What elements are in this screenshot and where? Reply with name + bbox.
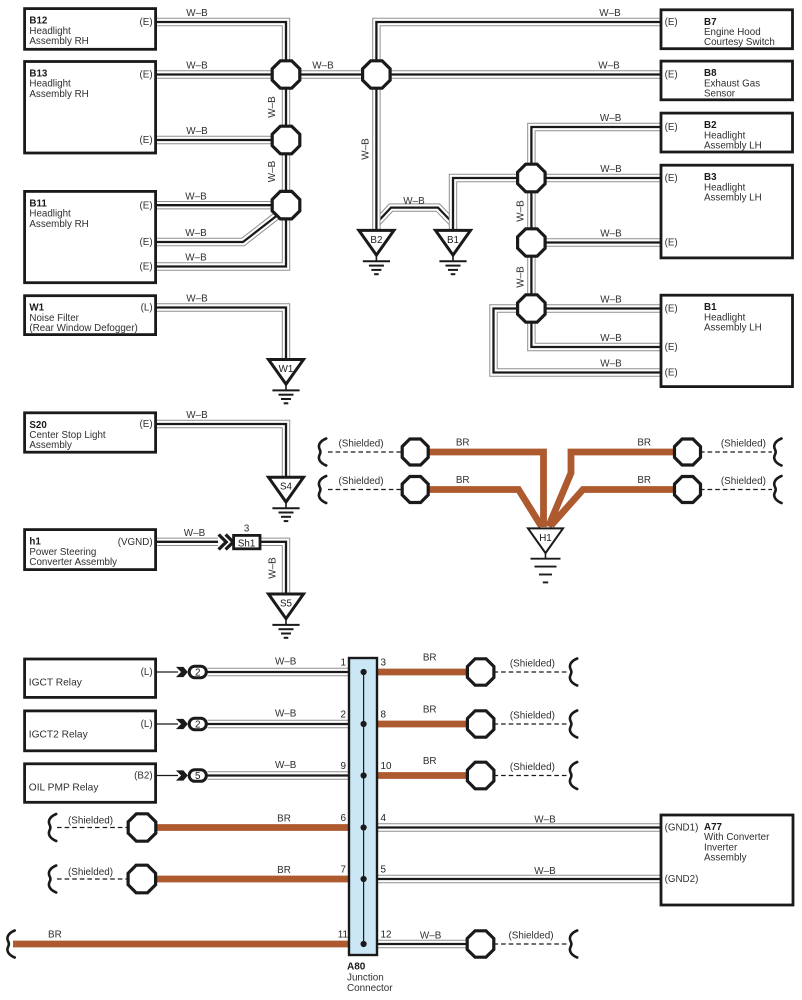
svg-text:(E): (E) <box>140 17 153 28</box>
wire dashed shielded lead pin10 <box>494 775 569 777</box>
wire W-B wire S20 to ground S4 <box>156 424 286 479</box>
label W-B on B11 second wire <box>185 228 207 239</box>
svg-text:W–B: W–B <box>185 228 207 239</box>
svg-text:Courtesy Switch: Courtesy Switch <box>704 37 775 48</box>
junction connector J3 <box>272 126 300 154</box>
svg-text:8: 8 <box>381 709 387 720</box>
svg-text:(Shielded): (Shielded) <box>510 762 555 773</box>
ground B2 <box>359 230 394 274</box>
svg-text:(Shielded): (Shielded) <box>508 931 553 942</box>
wire W-B wire J3 to J4 <box>282 140 290 205</box>
svg-text:(VGND): (VGND) <box>118 537 153 548</box>
label Shielded right row1 <box>721 438 766 449</box>
junction dot A80 row 5 <box>361 876 367 882</box>
svg-text:IGCT Relay: IGCT Relay <box>29 678 83 689</box>
svg-text:W–B: W–B <box>268 557 279 579</box>
svg-text:BR: BR <box>637 475 651 486</box>
svg-text:Junction: Junction <box>347 973 384 984</box>
junction connector J6 <box>518 229 546 256</box>
svg-text:(Shielded): (Shielded) <box>510 658 555 669</box>
label W-B on B3 lower wire <box>600 229 622 240</box>
component B7 Engine Hood Courtesy Switch <box>661 10 793 49</box>
svg-text:W–B: W–B <box>600 113 622 124</box>
svg-text:W–B: W–B <box>312 61 334 72</box>
svg-text:Assembly RH: Assembly RH <box>29 89 88 100</box>
wire dashed shielded lead pin12 <box>494 943 569 945</box>
shield break right row2 <box>774 476 781 503</box>
svg-text:(Shielded): (Shielded) <box>68 815 113 826</box>
svg-text:Assembly: Assembly <box>29 440 72 451</box>
svg-text:W–B: W–B <box>186 126 208 137</box>
component W1 Noise Filter <box>25 296 156 335</box>
svg-text:W–B: W–B <box>534 814 556 825</box>
label W-B on B13 lower wire <box>186 126 208 137</box>
component B1 Headlight Assembly LH <box>661 295 793 386</box>
svg-text:B2: B2 <box>370 235 382 246</box>
wire BR wire shield junction to pin7 <box>142 876 360 883</box>
wire BR wire pin10 to shield junction <box>365 772 481 779</box>
pin number 12 (pin12) <box>381 929 392 940</box>
svg-text:(E): (E) <box>665 368 678 379</box>
svg-text:W–B: W–B <box>420 931 442 942</box>
svg-text:Assembly RH: Assembly RH <box>29 219 88 230</box>
component OIL PMP Relay <box>25 764 156 803</box>
svg-text:W–B: W–B <box>600 229 622 240</box>
component IGCT Relay <box>25 659 156 697</box>
wire W-B wire J2 to B8 <box>376 70 661 78</box>
shield junction pin6 <box>128 814 156 841</box>
svg-text:2: 2 <box>195 719 200 730</box>
svg-text:Assembly: Assembly <box>704 853 747 864</box>
label W-B on B11 first wire <box>185 191 207 202</box>
wire dashed shielded lead left row1 <box>328 451 403 453</box>
svg-text:(E): (E) <box>665 342 678 353</box>
svg-text:Connector: Connector <box>347 983 393 994</box>
svg-text:W–B: W–B <box>267 96 278 118</box>
pin number 1 (pin1) <box>341 657 347 668</box>
svg-text:(E): (E) <box>665 122 678 133</box>
label BR on H1 left row1 wire <box>456 438 470 449</box>
shield junction right row1 <box>675 439 701 465</box>
wire dashed shielded lead pin8 <box>494 723 569 725</box>
svg-text:(E): (E) <box>665 70 678 81</box>
svg-text:BR: BR <box>277 865 291 876</box>
svg-text:IGCT2 Relay: IGCT2 Relay <box>29 730 89 741</box>
svg-text:W–B: W–B <box>184 528 206 539</box>
component IGCT2 Relay <box>25 711 156 751</box>
svg-text:W–B: W–B <box>600 164 622 175</box>
svg-text:A80: A80 <box>347 962 366 973</box>
svg-text:(E): (E) <box>665 173 678 184</box>
svg-text:(E): (E) <box>140 237 153 248</box>
wire W-B wire J7 to B1 third (outer loop) <box>494 309 662 373</box>
pin number 8 (pin8) <box>381 709 387 720</box>
label W-B on B2 wire <box>600 113 622 124</box>
svg-text:(E): (E) <box>140 135 153 146</box>
svg-text:2: 2 <box>195 667 200 678</box>
ground S5 <box>269 594 304 638</box>
wire BR wire junction to H1 left row2 <box>415 490 541 527</box>
shield break pin7 <box>49 866 56 893</box>
shield junction left row1 <box>402 439 428 465</box>
svg-text:(Shielded): (Shielded) <box>510 710 555 721</box>
svg-text:5: 5 <box>195 771 201 782</box>
wire lead IGCT2 relay to connector <box>156 723 178 725</box>
label BR on pin6 wire <box>277 813 291 824</box>
label W-B on B1 second wire <box>600 333 622 344</box>
wire W-B wire J5 to B3 upper <box>531 174 661 182</box>
junction connector J4 <box>272 191 300 219</box>
label BR on pin3 wire <box>423 652 437 663</box>
shield break pin6 <box>49 814 56 841</box>
component B2 Headlight Assembly LH <box>661 113 793 152</box>
wire W-B wire B11 third to J4 <box>156 205 286 266</box>
svg-text:9: 9 <box>341 761 347 772</box>
svg-text:W–B: W–B <box>516 266 527 288</box>
svg-text:W–B: W–B <box>275 657 297 668</box>
wire W-B wire h1 to connector Sh1 <box>156 538 218 546</box>
label W-B on IGCT2 wire <box>275 709 297 720</box>
svg-text:(E): (E) <box>140 262 153 273</box>
junction dot A80 row 6 <box>361 941 367 947</box>
svg-text:S4: S4 <box>280 482 293 493</box>
label BR on H1 left row2 wire <box>456 475 470 486</box>
ground W1 <box>269 360 304 404</box>
wire W-B wire J6 to J7 <box>527 243 535 309</box>
svg-text:2: 2 <box>341 709 347 720</box>
label Shielded left row2 <box>338 476 383 487</box>
shield break pin10 <box>570 762 577 789</box>
ground S4 <box>269 477 304 521</box>
wire W-B wire pin5 to A77 GND2 <box>365 875 661 883</box>
wire BR wire shield junction to pin6 <box>142 824 360 831</box>
wire W-B wire B7 to junction J2 <box>376 22 661 75</box>
wire W-B wire pin12 to shield junction <box>365 940 481 948</box>
label W-B on J6-J7 wire <box>516 266 527 288</box>
svg-text:(Rear Window Defogger): (Rear Window Defogger) <box>29 323 137 334</box>
junction dot A80 row 1 <box>361 669 367 675</box>
svg-text:(E): (E) <box>665 238 678 249</box>
wire W-B wire B12 to junction J1 <box>156 22 286 75</box>
label A80 Junction Connector <box>347 962 393 995</box>
svg-text:(GND2): (GND2) <box>665 874 699 885</box>
junction connector J1 <box>272 61 300 88</box>
wire W-B wire J3 to B13 lower <box>156 136 286 144</box>
wire W-B wire J4 to B11 first <box>156 201 286 209</box>
svg-text:(E): (E) <box>140 70 153 81</box>
wire W-B wire J7 to B1 second <box>531 309 661 348</box>
connector arrow IGCT relay <box>176 667 188 677</box>
connector arrow OIL PMP relay <box>176 770 188 780</box>
svg-text:W–B: W–B <box>600 295 622 306</box>
junction connector A80 (bar) <box>349 658 377 955</box>
svg-text:Assembly LH: Assembly LH <box>704 193 762 204</box>
svg-text:W–B: W–B <box>186 410 208 421</box>
svg-text:BR: BR <box>423 652 437 663</box>
svg-text:BR: BR <box>48 929 62 940</box>
svg-text:W–B: W–B <box>600 359 622 370</box>
label BR on H1 right row1 wire <box>637 438 651 449</box>
label Shielded pin10 <box>510 762 555 773</box>
label W-B on J2-B2 ground wire <box>360 138 371 160</box>
connector oval pin 2 of IGCT2 relay <box>189 718 206 730</box>
svg-text:BR: BR <box>423 756 437 767</box>
shield break pin12 <box>570 931 577 958</box>
svg-text:OIL PMP Relay: OIL PMP Relay <box>29 782 100 793</box>
svg-text:Assembly LH: Assembly LH <box>704 140 762 151</box>
pin number 11 (pin11) <box>338 929 349 940</box>
svg-text:BR: BR <box>456 475 470 486</box>
shield break left row1 <box>319 439 326 466</box>
shield junction pin3 <box>467 659 494 685</box>
wire W-B wire B2 box to junction J5 <box>531 127 661 178</box>
wire BR wire pin8 to shield junction <box>365 721 481 728</box>
svg-text:(Shielded): (Shielded) <box>338 476 383 487</box>
wire W-B wire B11 second to J4 (diagonal) <box>156 214 279 242</box>
svg-text:W–B: W–B <box>275 760 297 771</box>
junction connector J7 <box>518 295 546 322</box>
svg-text:B1: B1 <box>447 235 459 246</box>
label Shielded right row2 <box>721 476 766 487</box>
shield junction right row2 <box>675 477 701 503</box>
svg-text:(Shielded): (Shielded) <box>721 438 766 449</box>
svg-text:Sh1: Sh1 <box>238 538 255 549</box>
svg-text:(Shielded): (Shielded) <box>721 476 766 487</box>
label W-B on J5-J6 wire <box>516 200 527 222</box>
label W-B on B3 upper wire <box>600 164 622 175</box>
svg-text:7: 7 <box>341 864 347 875</box>
svg-text:(E): (E) <box>665 17 678 28</box>
pin number 4 (pin4) <box>381 813 387 824</box>
label Shielded pin8 <box>510 710 555 721</box>
label W-B on h1 wire <box>184 528 206 539</box>
label W-B on Sh1-S5 wire <box>268 557 279 579</box>
label Shielded left row1 <box>338 438 383 449</box>
ground B1 <box>436 230 471 274</box>
junction connector J5 <box>518 164 546 192</box>
junction connector J2 <box>363 61 391 88</box>
shield junction pin10 <box>467 762 494 789</box>
label W-B on B7 wire <box>599 8 621 19</box>
wire lead IGCT relay to connector <box>156 671 178 673</box>
shield junction pin12 <box>467 931 494 957</box>
svg-text:(E): (E) <box>140 419 153 430</box>
wire W-B wire J5 to J6 <box>527 178 535 243</box>
shield break pin3 <box>570 659 577 686</box>
label W-B on S20 wire <box>186 410 208 421</box>
connector Sh1 <box>234 535 260 549</box>
svg-text:(L): (L) <box>141 667 153 678</box>
svg-text:BR: BR <box>456 438 470 449</box>
label W-B on IGCT wire <box>275 657 297 668</box>
label Shielded pin7 <box>68 867 113 878</box>
svg-text:(L): (L) <box>141 719 153 730</box>
wire W-B wire J1 to J2 <box>286 70 376 78</box>
svg-text:W–B: W–B <box>534 866 556 877</box>
shield junction left row2 <box>402 477 428 503</box>
svg-text:Assembly RH: Assembly RH <box>29 36 88 47</box>
component B12 Headlight Assembly RH <box>25 9 156 50</box>
svg-text:(E): (E) <box>665 304 678 315</box>
svg-text:W–B: W–B <box>599 8 621 19</box>
wire dashed shielded lead right row2 <box>700 489 772 491</box>
wire W-B wire W1 box to ground W1 <box>156 308 286 362</box>
svg-text:3: 3 <box>244 524 250 535</box>
wire W-B wire ground B2 to ground B1 (bridge) <box>378 208 452 222</box>
shield break pin11 <box>7 931 14 958</box>
wire W-B wire J5 to ground B1 <box>453 178 531 232</box>
label W-B on B1 first wire <box>600 295 622 306</box>
wire BR wire left edge to pin11 <box>13 941 360 948</box>
label BR on pin11 wire <box>48 929 62 940</box>
pin number 10 (pin10) <box>381 761 392 772</box>
label W-B on B11 third wire <box>185 253 207 264</box>
wire dashed shielded lead pin6 <box>57 827 129 829</box>
label W-B on W1 wire <box>186 294 208 305</box>
pin number 7 (pin7) <box>341 864 347 875</box>
label W-B on pin5 wire <box>534 866 556 877</box>
label BR on pin8 wire <box>423 704 437 715</box>
label W-B on B12 wire <box>186 8 208 19</box>
label BR on pin10 wire <box>423 756 437 767</box>
wire W-B wire IGCT2 relay to pin2 <box>208 720 361 728</box>
svg-text:W–B: W–B <box>360 138 371 160</box>
svg-text:5: 5 <box>381 864 387 875</box>
label Shielded pin3 <box>510 658 555 669</box>
svg-text:W–B: W–B <box>186 61 208 72</box>
svg-text:(GND1): (GND1) <box>665 823 699 834</box>
svg-text:W–B: W–B <box>275 709 297 720</box>
wire dashed shielded lead pin3 <box>494 671 569 673</box>
junction dot A80 row 3 <box>361 772 367 778</box>
svg-text:Sensor: Sensor <box>704 89 736 100</box>
label W-B on J1-J3 wire <box>267 96 278 118</box>
component S20 Center Stop Light Assembly <box>25 413 156 452</box>
wire W-B wire J7 to B1 first <box>531 304 661 312</box>
svg-text:H1: H1 <box>539 533 552 544</box>
shield break left row2 <box>319 476 326 503</box>
svg-text:W–B: W–B <box>403 196 425 207</box>
shield break right row1 <box>774 439 781 466</box>
shield break pin8 <box>570 711 577 738</box>
wire BR wire junction to H1 right row1 <box>549 452 688 527</box>
svg-text:Assembly LH: Assembly LH <box>704 323 762 334</box>
svg-text:W1: W1 <box>279 364 294 375</box>
wire W-B wire IGCT relay to pin1 <box>208 668 361 676</box>
shield junction pin7 <box>128 865 156 893</box>
ground H1 <box>528 528 563 582</box>
component B3 Headlight Assembly LH <box>661 165 793 258</box>
junction dot A80 row 2 <box>361 721 367 727</box>
connector oval pin 5 of OIL PMP relay <box>189 770 206 782</box>
svg-text:1: 1 <box>341 657 347 668</box>
svg-text:(B2): (B2) <box>134 771 153 782</box>
component B13 Headlight Assembly RH <box>25 62 156 154</box>
svg-text:S5: S5 <box>280 598 293 609</box>
label W-B on pin4 wire <box>534 814 556 825</box>
svg-text:3: 3 <box>381 657 387 668</box>
wire dashed shielded lead left row2 <box>328 489 403 491</box>
svg-text:W–B: W–B <box>185 253 207 264</box>
label BR on H1 right row2 wire <box>637 475 651 486</box>
wire dashed shielded lead pin7 <box>57 878 129 880</box>
svg-text:W–B: W–B <box>598 61 620 72</box>
wire W-B wire J1 to J3 <box>282 75 290 141</box>
svg-text:12: 12 <box>381 929 392 940</box>
wire BR wire pin3 to shield junction <box>365 669 481 676</box>
wire W-B wire J2 to ground B2 <box>372 75 380 233</box>
label Shielded pin6 <box>68 815 113 826</box>
pin number 3 (pin3) <box>381 657 387 668</box>
wire BR wire junction to H1 left row1 <box>415 452 543 527</box>
wire W-B wire Sh1 to ground S5 <box>259 542 286 596</box>
svg-text:(E): (E) <box>140 200 153 211</box>
svg-text:BR: BR <box>423 704 437 715</box>
wire BR wire junction to H1 right row2 <box>551 490 688 526</box>
shield junction pin8 <box>467 711 494 737</box>
component B8 Exhaust Gas Sensor <box>661 61 793 100</box>
svg-text:W–B: W–B <box>600 333 622 344</box>
svg-text:4: 4 <box>381 813 387 824</box>
svg-text:BR: BR <box>277 813 291 824</box>
component A77 With Converter Inverter Assembly <box>661 815 793 905</box>
label W-B on B8 wire <box>598 61 620 72</box>
component h1 Power Steering Converter Assembly <box>25 530 156 570</box>
label W-B on B1 third wire <box>600 359 622 370</box>
wire dashed shielded lead right row1 <box>700 451 772 453</box>
wire W-B wire B13 upper to junction J1 <box>156 70 286 78</box>
connector oval pin 2 of IGCT relay <box>189 666 206 678</box>
label W-B on OIL PMP wire <box>275 760 297 771</box>
svg-text:10: 10 <box>381 761 392 772</box>
svg-text:W–B: W–B <box>185 191 207 202</box>
junction dot A80 row 4 <box>361 824 367 830</box>
svg-text:W–B: W–B <box>267 160 278 182</box>
svg-text:BR: BR <box>637 438 651 449</box>
wire W-B wire OIL PMP relay to pin9 <box>208 771 361 779</box>
svg-text:6: 6 <box>341 813 347 824</box>
svg-text:W–B: W–B <box>186 294 208 305</box>
component B11 Headlight Assembly RH <box>25 191 156 282</box>
svg-text:W–B: W–B <box>516 200 527 222</box>
connector chevrons before Sh1 <box>219 535 234 550</box>
connector arrow IGCT2 relay <box>176 719 188 729</box>
label BR on pin7 wire <box>277 865 291 876</box>
label W-B on J3-J4 wire <box>267 160 278 182</box>
pin number 6 (pin6) <box>341 813 347 824</box>
wire W-B wire J6 to B3 lower <box>531 238 661 246</box>
svg-text:Converter Assembly: Converter Assembly <box>29 557 117 568</box>
label Shielded pin12 <box>508 931 553 942</box>
label W-B on B13 upper wire <box>186 61 208 72</box>
pin number 5 (pin5) <box>381 864 387 875</box>
label W-B on pin12 wire <box>420 931 442 942</box>
pin number 9 (pin9) <box>341 761 347 772</box>
pin number 2 (pin2) <box>341 709 347 720</box>
svg-text:W–B: W–B <box>186 8 208 19</box>
svg-text:(L): (L) <box>141 303 153 314</box>
pin number 3 of Sh1 <box>244 524 250 535</box>
wire W-B wire pin4 to A77 GND1 <box>365 823 661 831</box>
svg-text:11: 11 <box>338 929 349 940</box>
label W-B on ground bridge wire <box>403 196 425 207</box>
label W-B on J1-J2 wire <box>312 61 334 72</box>
wire lead OIL PMP relay to connector <box>156 775 178 777</box>
svg-text:(Shielded): (Shielded) <box>338 438 383 449</box>
svg-text:(Shielded): (Shielded) <box>68 867 113 878</box>
